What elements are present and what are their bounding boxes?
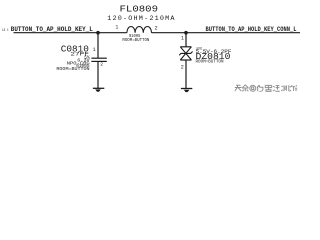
svg-text:ROOM=BUTTON: ROOM=BUTTON — [122, 39, 149, 43]
svg-text:13 1: 13 1 — [2, 29, 9, 33]
wire left segment — [14, 32, 127, 34]
svg-text:2: 2 — [100, 62, 103, 68]
ground (C0810) — [93, 88, 104, 91]
wire DZ0810 branch lower — [185, 60, 187, 88]
TVS diode DZ0810 symbol — [179, 47, 192, 60]
svg-text:1: 1 — [115, 25, 118, 31]
svg-text:120-OHM-210MA: 120-OHM-210MA — [107, 15, 175, 23]
wire C0810 branch upper — [97, 33, 99, 58]
ground (DZ0810) — [181, 89, 192, 93]
node junction at C0810 — [96, 31, 100, 35]
svg-text:2: 2 — [155, 26, 158, 32]
svg-text:1: 1 — [181, 36, 184, 42]
svg-text:BUTTON_TO_AP_HOLD_KEY_CONN_L: BUTTON_TO_AP_HOLD_KEY_CONN_L — [206, 26, 297, 33]
svg-text:ROOM=BUTTON: ROOM=BUTTON — [56, 68, 90, 72]
wire right segment — [152, 32, 301, 34]
capacitor C0810 plates — [91, 57, 106, 59]
svg-text:FL0809: FL0809 — [120, 3, 159, 14]
svg-text:1: 1 — [93, 47, 96, 53]
ferrite bead FL0809 symbol — [127, 26, 152, 32]
wire C0810 branch lower — [97, 61, 99, 88]
svg-text:2: 2 — [181, 64, 184, 70]
node junction at DZ0810 — [184, 31, 188, 35]
watermark (gray CJK-style marks) — [235, 85, 297, 92]
wire DZ0810 branch upper — [185, 33, 187, 47]
svg-text:ROOM=BUTTON: ROOM=BUTTON — [196, 60, 224, 64]
